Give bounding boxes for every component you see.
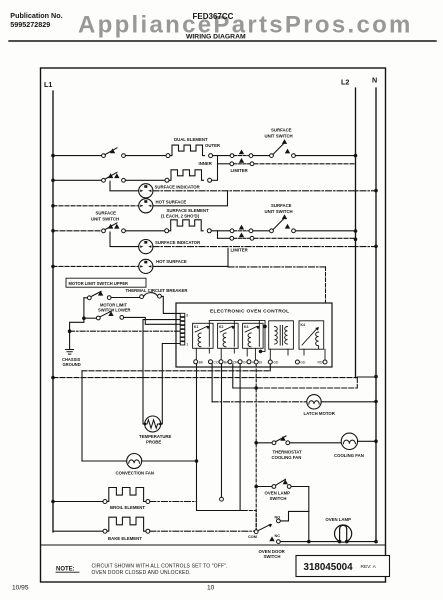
node junction lower switch [82,316,86,320]
wire V drop [239,364,241,511]
wire row A from L1 [53,155,102,157]
svg-text:PROBE: PROBE [146,440,161,445]
svg-text:COOLING FAN: COOLING FAN [334,453,364,458]
lamp hot surface 1 [139,199,153,213]
switch thermostat cooling fan [254,441,258,445]
wire row E from L1 [53,205,139,207]
wire [253,230,270,232]
svg-text:SWITCH LOWER: SWITCH LOWER [98,308,131,313]
wire row A to L2 [295,155,355,157]
wire [125,179,165,181]
svg-text:L2: L2 [341,78,349,87]
wire junction to limiter row G [217,231,219,239]
wire N bus [375,88,377,542]
terminal EI [254,360,258,364]
svg-text:OVEN LAMP: OVEN LAMP [265,491,291,496]
wire switch dogleg to indicator row D [110,181,139,191]
svg-text:SURFACE: SURFACE [271,128,292,133]
wire chassis to connector pin (dashed) [70,330,181,332]
svg-text:OUTER: OUTER [205,143,221,148]
svg-text:CO: CO [213,361,218,365]
frame inner bottom separator [41,544,386,546]
svg-text:SURFACE ELEMENT: SURFACE ELEMENT [167,208,210,213]
svg-text:GD: GD [300,361,306,365]
svg-text:RD: RD [318,361,323,365]
svg-text:INNER: INNER [199,161,213,166]
motor cooling fan [341,433,357,449]
wire row E dogleg [153,191,228,206]
svg-text:SURFACE: SURFACE [271,203,292,208]
svg-text:OR: OR [233,361,239,365]
transformer T1 [269,321,294,360]
wire chassis branch [70,318,84,349]
wire L1 bus [52,91,54,532]
switch motor limit upper [87,296,91,300]
wire switch dogleg to indicator row H [110,232,139,247]
svg-text:L1: L1 [44,80,52,89]
wire vertical between limit switches [83,298,85,318]
lamp surface indicator 2 [139,240,153,254]
svg-text:SURFACE: SURFACE [96,210,117,215]
wire row I to EOC top [228,266,326,268]
svg-text:5995272829: 5995272829 [10,20,50,29]
svg-text:UNIT SWITCH: UNIT SWITCH [265,209,293,214]
svg-text:SURFACE INDICATOR: SURFACE INDICATOR [155,184,201,189]
wire pin to probe right [162,344,180,425]
wire breaker to connector pin [161,296,180,313]
relay K2 [218,323,239,359]
lamp surface indicator 1 [139,184,153,198]
wire P2 link to N [357,376,374,378]
svg-text:K3: K3 [244,325,248,329]
wire BK to door switch [197,510,245,512]
svg-text:K1: K1 [194,325,198,329]
svg-text:LIMITER: LIMITER [231,248,249,253]
terminal GD2 [295,360,299,364]
relay K1 [193,323,214,359]
svg-text:SWITCH: SWITCH [264,554,281,559]
terminal OR [228,360,232,364]
wire row I from L1 [53,265,139,267]
node junction N row D [374,189,378,193]
switch S1 (dual element) [102,154,106,158]
motor latch motor [212,401,307,403]
svg-text:BROIL ELEMENT: BROIL ELEMENT [110,505,145,510]
svg-text:GROUND: GROUND [63,362,81,367]
svg-text:NC: NC [275,534,281,538]
wire [212,179,218,181]
svg-text:CONVECTION FAN: CONVECTION FAN [116,471,154,476]
wire L2 bus [355,88,357,378]
svg-text:10: 10 [207,585,215,592]
svg-text:318045004: 318045004 [304,562,354,573]
node junction latch feed [254,386,258,390]
svg-text:THERMOSTAT: THERMOSTAT [273,450,303,455]
node junction L1 row F [51,229,55,233]
terminal BK [194,360,198,364]
terminal GD [268,360,272,364]
wire [253,155,270,157]
wire row P1 dashed [82,370,270,372]
switch mid row A [230,154,234,158]
resistor temperature probe [145,416,161,432]
svg-text:HOT SURFACE: HOT SURFACE [156,259,187,264]
lamp hot surface 2 [139,259,153,273]
terminal CO [209,360,213,364]
part number box [296,556,390,577]
svg-text:UNIT SWITCH: UNIT SWITCH [91,216,119,221]
wire row C from L1 [53,179,102,181]
node junction L2 row G [354,238,358,242]
relay K3 [243,323,264,359]
resistor bake element [53,530,103,532]
breaker thermal circuit breaker [140,295,144,299]
wire row F to L2 [295,230,355,232]
wire lamp switch down [308,487,310,542]
svg-text:GD: GD [273,361,279,365]
svg-text:EI: EI [259,361,262,365]
wire conv fan bracket [81,371,83,461]
svg-text:REV: A: REV: A [361,564,377,570]
svg-text:CIRCUIT SHOWN WITH ALL CONTROL: CIRCUIT SHOWN WITH ALL CONTROLS SET TO "… [92,563,228,569]
svg-text:(1 EACH, 2 SHO'D): (1 EACH, 2 SHO'D) [161,214,200,219]
svg-text:TEMPERATURE: TEMPERATURE [139,434,172,439]
wire limiter tap row B [218,163,230,165]
switch S2 (inner element) [102,178,106,182]
node junction L1 row A [51,154,55,158]
wire BK drop [196,364,198,511]
svg-text:Publication No.: Publication No. [10,11,62,20]
wire limiter tap row G [218,237,230,239]
wire [213,155,231,157]
wire row F from L1 [53,230,102,232]
relay K4 [299,321,324,355]
wire lower switch to connector pin [124,317,181,324]
wire row P2 from L1 [51,376,55,380]
node junction L1 row E [51,204,55,208]
svg-text:MOTOR LIMIT SWITCH UPPER: MOTOR LIMIT SWITCH UPPER [69,281,129,286]
svg-text:LIMITER: LIMITER [231,168,249,173]
svg-text:COOLING FAN: COOLING FAN [272,455,302,460]
node junction chassis [68,329,72,333]
svg-text:K2: K2 [219,325,223,329]
svg-text:1: 1 [186,342,188,346]
svg-text:OVEN DOOR CLOSED AND UNLOCKED.: OVEN DOOR CLOSED AND UNLOCKED. [92,570,191,576]
op-box electronic oven control [176,303,332,367]
wire [211,230,230,232]
node junction N P2 [374,375,378,379]
node junction conv fan row [195,459,199,463]
wire GY drop [233,364,255,388]
node junction N row H [374,245,378,249]
motor convection fan [82,460,127,462]
svg-text:FED367CC: FED367CC [193,12,234,21]
wire BA drop to broil [221,364,223,497]
wire junction to inner element [217,156,219,180]
svg-text:THERMAL CIRCUIT BREAKER: THERMAL CIRCUIT BREAKER [126,288,189,293]
lamp oven lamp [309,541,375,543]
connector P1 pins [180,313,185,345]
resistor broil element [53,501,103,503]
svg-text:COM: COM [248,535,257,539]
wire row I dogleg [153,248,228,266]
svg-text:DUAL ELEMENT: DUAL ELEMENT [174,137,208,142]
svg-text:SWITCH: SWITCH [270,496,287,501]
ground chassis ground symbol [66,350,74,355]
terminal BA [219,360,223,364]
wire [125,230,164,232]
svg-text:WIRING DIAGRAM: WIRING DIAGRAM [186,34,246,41]
wire CO drop to latch row [211,364,213,402]
svg-text:NOTE:: NOTE: [56,567,75,573]
switch mid row F [230,229,234,233]
terminal GY [238,360,242,364]
switch oven lamp switch [254,485,258,489]
svg-text:HOT SURFACE: HOT SURFACE [156,199,187,204]
node junction L2 row A [354,154,358,158]
node junction inside EOC [263,325,267,329]
svg-text:N: N [372,76,377,85]
svg-text:UNIT SWITCH: UNIT SWITCH [265,134,293,139]
node junction L1 row I [51,265,55,269]
wire pin to probe left [143,320,180,424]
svg-text:BK: BK [199,361,204,365]
label box motor limit switch upper [66,278,146,287]
node junction L2 row F [354,229,358,233]
wire row B to L2 [254,163,356,165]
svg-text:SURFACE INDICATOR: SURFACE INDICATOR [155,240,201,245]
terminal V [247,360,251,364]
wire row G to L2 [254,237,356,239]
node junction L1 row C [51,179,55,183]
switch motor limit lower [84,317,97,319]
header rule [9,40,436,42]
wire [125,155,166,157]
svg-text:ELECTRONIC OVEN CONTROL: ELECTRONIC OVEN CONTROL [210,309,289,315]
svg-text:10/95: 10/95 [12,585,29,592]
diagram border frame [41,68,386,582]
svg-text:K4: K4 [301,323,305,327]
svg-text:LATCH MOTOR: LATCH MOTOR [304,411,336,416]
svg-text:8: 8 [186,314,188,318]
wire row D to N [153,190,375,192]
svg-text:BAKE ELEMENT: BAKE ELEMENT [108,536,142,541]
svg-text:OVEN LAMP: OVEN LAMP [325,517,351,522]
wire relay top bus [209,319,265,321]
wire EI dashed drop [255,364,257,530]
wire row H to N [153,246,375,248]
